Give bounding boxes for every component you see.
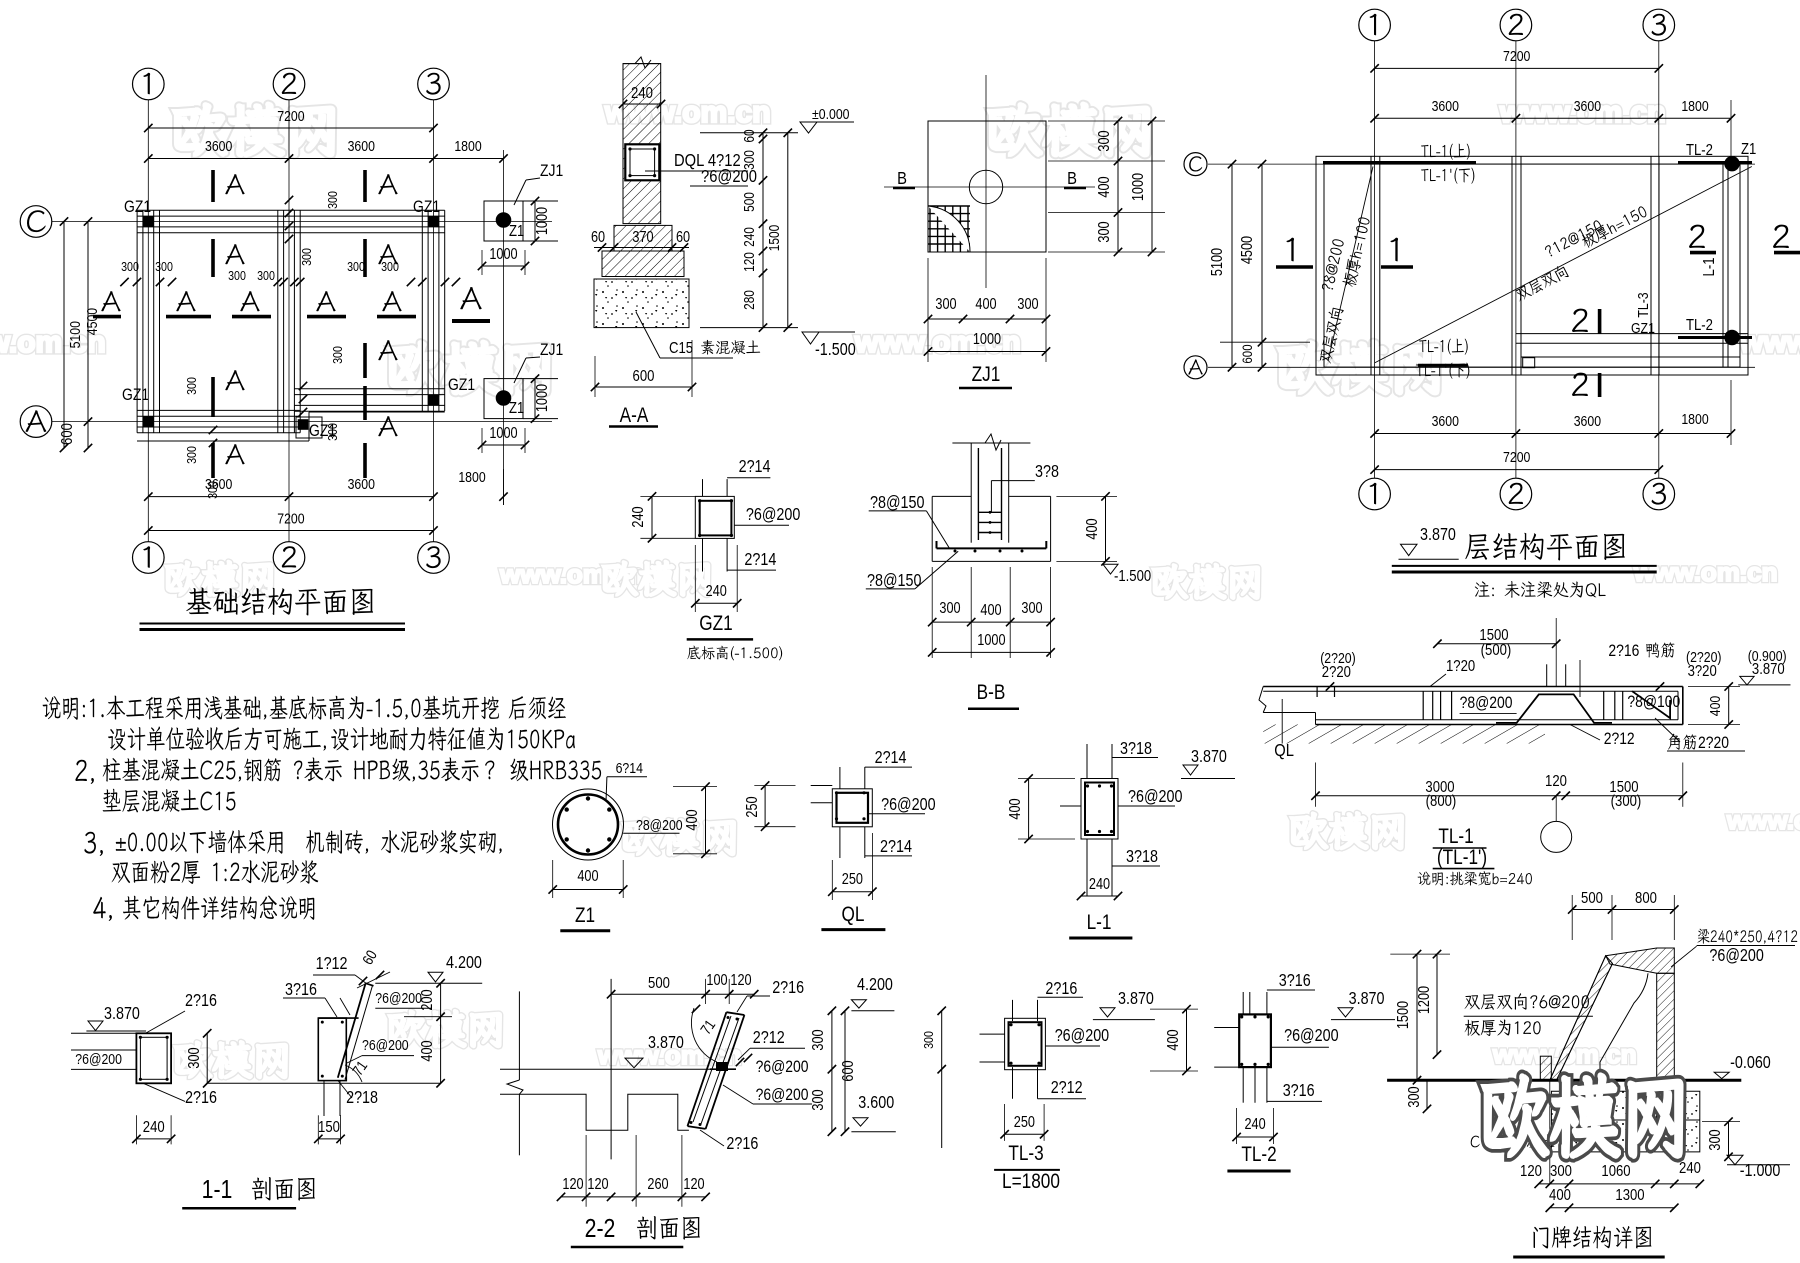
1-1 angle 71	[349, 1058, 370, 1079]
A-A label DQL 4?12 / ?6@200	[674, 151, 741, 171]
floor plan grid bubbles bottom	[1359, 478, 1391, 510]
2-2 bottom dims	[561, 1196, 706, 1198]
A-A title	[620, 405, 649, 428]
TL-1 grid circle	[1541, 821, 1572, 852]
floor plan beam grid2	[1511, 156, 1513, 375]
svg-text:2?20: 2?20	[1698, 734, 1729, 753]
svg-text:5100: 5100	[67, 321, 83, 349]
svg-text:300: 300	[121, 259, 139, 274]
dimension 7200 top	[148, 127, 433, 129]
TL-1 top hooks	[1316, 687, 1318, 698]
svg-text:2?18: 2?18	[346, 1089, 378, 1108]
B-B label ?8@150 top	[870, 494, 925, 513]
floor plan beam grid3	[1650, 156, 1652, 375]
grid lines vertical	[147, 100, 149, 542]
TL-1 label 2?20 left	[1320, 650, 1356, 666]
svg-text:300: 300	[1021, 600, 1042, 617]
svg-text:2?12: 2?12	[753, 1029, 785, 1048]
svg-text:GZ1: GZ1	[1631, 320, 1655, 336]
L-1 level 3.870	[1191, 748, 1227, 767]
ZJ1 center lines	[985, 75, 987, 288]
ZJ1 top right dims	[534, 201, 536, 241]
svg-text:300: 300	[810, 1089, 827, 1110]
svg-text:www.om.cn: www.om.cn	[1726, 805, 1800, 835]
GZ1 labels on plan	[124, 198, 151, 217]
svg-text:7200: 7200	[1503, 48, 1531, 64]
door left dims 1500 1200 300	[1416, 954, 1418, 1080]
A-A dim 600	[595, 386, 692, 388]
svg-text:3600: 3600	[348, 476, 376, 492]
section cut dashes vertical x=365 and letters	[363, 170, 367, 202]
svg-text:300: 300	[257, 268, 275, 283]
TL-3 title	[1008, 1143, 1043, 1166]
2-2 label 2?16 top	[772, 979, 804, 998]
svg-text:(500): (500)	[1481, 642, 1512, 659]
svg-text:Z1: Z1	[1741, 141, 1756, 158]
svg-text:4.200: 4.200	[446, 954, 482, 973]
watermark row2	[0, 326, 106, 359]
svg-text:2?14: 2?14	[744, 551, 776, 570]
foundation strip wall right (grid 3)	[421, 210, 423, 411]
B-B stirrups	[978, 511, 1001, 513]
A-A concrete footing C15	[594, 279, 689, 328]
2-2 level 3.600	[858, 1094, 894, 1113]
svg-text:Z1: Z1	[509, 223, 524, 240]
svg-text:-0.060: -0.060	[1730, 1054, 1771, 1073]
svg-text:TL-3: TL-3	[1008, 1143, 1043, 1166]
ZJ1 title	[972, 364, 1001, 387]
plan 300 dim labels and ticks	[121, 259, 139, 274]
svg-text:(300): (300)	[1611, 793, 1642, 810]
ZJ1 plan square	[928, 121, 1046, 252]
A-A dims 60 370 60	[591, 229, 605, 246]
svg-text:1800: 1800	[454, 138, 482, 154]
B-B bottom rebar	[937, 547, 1047, 549]
svg-text:240: 240	[1679, 1160, 1701, 1177]
svg-text:?6@200: ?6@200	[362, 1037, 409, 1053]
door pylon right column hatched	[1657, 973, 1675, 1121]
B-B bottom dims	[932, 621, 1050, 623]
watermark row4	[623, 819, 734, 855]
Z1 title	[575, 905, 595, 928]
tick marks on top wall near grid2	[285, 196, 293, 204]
door slab stub	[1540, 1056, 1551, 1080]
door bottom dims row2	[1550, 1207, 1675, 1209]
TL-3 wall verticals	[1012, 1000, 1014, 1021]
TL-2 label 3?16 top	[1279, 972, 1311, 991]
TL-1 label 3?20 right	[1686, 649, 1722, 665]
svg-text:2?12: 2?12	[1604, 730, 1635, 749]
svg-text:L-1: L-1	[1701, 258, 1718, 277]
grid bubbles bottom (foundation plan)	[133, 542, 165, 574]
ZJ1 right dims 300 400 300 1000	[1117, 121, 1119, 252]
svg-text:1-1: 1-1	[202, 1175, 233, 1205]
door pylon top cap	[1606, 948, 1675, 973]
floor plan grid verticals	[1374, 41, 1376, 478]
svg-text:L-1: L-1	[1087, 912, 1112, 935]
svg-text:3600: 3600	[1574, 98, 1602, 114]
svg-text:60: 60	[591, 229, 605, 246]
watermark row5	[389, 1011, 500, 1047]
svg-text:(800): (800)	[1426, 793, 1457, 810]
svg-text:400: 400	[1165, 1029, 1182, 1050]
TL-2 title	[1241, 1144, 1276, 1167]
svg-text:7200: 7200	[277, 510, 305, 526]
svg-text:?6@200: ?6@200	[881, 796, 936, 815]
svg-text:240: 240	[706, 583, 727, 600]
2-2 intersection detail	[716, 1062, 728, 1071]
ZJ1 bottom right dims	[534, 379, 536, 419]
dimension 5100 / 4500 / 600 left	[63, 222, 65, 449]
TL-1 hatch ground	[1263, 725, 1545, 744]
svg-text:3600: 3600	[1432, 98, 1460, 114]
corner column GZ1 squares (black)	[143, 216, 154, 227]
TL-2 label ?6@200	[1284, 1027, 1339, 1046]
svg-text:3.870: 3.870	[1191, 748, 1227, 767]
svg-text:300: 300	[347, 259, 365, 274]
2-2 label 2?16 bottom	[726, 1135, 758, 1154]
svg-text:Z1: Z1	[509, 400, 524, 417]
2-2 level 3.870	[648, 1034, 684, 1053]
svg-text:400: 400	[577, 868, 598, 885]
floor plan Z1 dots	[1724, 156, 1739, 171]
notes line 5	[84, 832, 102, 856]
B-B title	[977, 682, 1006, 705]
svg-text:A-A: A-A	[620, 405, 649, 428]
svg-text:1000: 1000	[489, 246, 517, 263]
Z1 dim 400 bottom	[553, 889, 624, 891]
svg-text:GZ1: GZ1	[699, 613, 732, 636]
foundation strip wall left (grid 1)	[136, 210, 138, 432]
A-A ring beam DQL	[625, 144, 659, 180]
watermark row3	[166, 561, 272, 595]
2-2 sloped member	[688, 1012, 727, 1126]
TL-1 stirrup group right	[1603, 691, 1605, 720]
floor plan grid bubbles top	[1359, 9, 1391, 41]
svg-text:60: 60	[741, 129, 757, 142]
svg-text:2?16: 2?16	[726, 1135, 758, 1154]
1-1 dim 60 slope	[359, 947, 380, 967]
TL-3 dim 250	[1005, 1133, 1045, 1135]
GZ1 label 2?14 top	[739, 458, 771, 477]
svg-text:3600: 3600	[1432, 413, 1460, 429]
svg-text:L=1800: L=1800	[1002, 1171, 1060, 1194]
TL-1 beam outline	[1263, 686, 1683, 688]
svg-text:1200: 1200	[1416, 986, 1433, 1014]
floor plan grid A bubble	[1184, 356, 1207, 379]
svg-text:300: 300	[810, 1029, 827, 1050]
svg-text:-1.500: -1.500	[1114, 568, 1151, 585]
svg-text:3?20: 3?20	[1688, 663, 1717, 680]
svg-text:3600: 3600	[348, 138, 376, 154]
Z1 label ?8@200	[636, 817, 683, 833]
L-1 label 3?18 top	[1120, 740, 1152, 759]
svg-text:3600: 3600	[1574, 413, 1602, 429]
2-2 left wall verticals	[518, 991, 520, 1080]
L-1 thick rect	[1081, 779, 1118, 840]
TL-2 wall verticals	[1242, 992, 1244, 1014]
dimension 3600 3600 bottom	[148, 496, 433, 498]
2-2 label ?6@200 upper	[756, 1058, 809, 1077]
svg-text:240: 240	[143, 1119, 165, 1136]
notes line 7	[93, 897, 112, 921]
TL-1 label 2?16 duck	[1608, 642, 1639, 661]
door ground line	[1387, 1079, 1741, 1082]
ZJ1 rebar mesh quarter	[928, 205, 970, 207]
TL-1 label 1?20	[1446, 658, 1475, 675]
1-1 label 2?18	[346, 1089, 378, 1108]
svg-text:±0.000: ±0.000	[812, 106, 850, 122]
svg-text:1?20: 1?20	[1446, 658, 1475, 675]
svg-text:100: 100	[706, 972, 727, 989]
1-1 beam rect	[136, 1033, 171, 1083]
B section marks	[897, 169, 907, 189]
1-1 bottom extension	[323, 1081, 325, 1116]
svg-text:150: 150	[318, 1119, 340, 1136]
floor plan TL labels	[1421, 144, 1470, 160]
1-1 long bottom line	[207, 1082, 440, 1084]
svg-text:1000: 1000	[973, 331, 1001, 348]
door label double layer	[1464, 993, 1588, 1009]
svg-text:500: 500	[741, 192, 757, 212]
svg-text:2?16: 2?16	[772, 979, 804, 998]
svg-text:TL-3: TL-3	[1635, 292, 1651, 318]
svg-text:600: 600	[840, 1060, 857, 1081]
svg-text:240: 240	[741, 227, 757, 247]
L-1 label 3?18 bottom	[1126, 848, 1158, 867]
Z1 label 6?14	[616, 760, 644, 776]
svg-text:5100: 5100	[1209, 248, 1226, 276]
floor plan TL-1 thick beams	[1323, 161, 1476, 164]
TL-2 level 3.870	[1349, 990, 1385, 1009]
svg-text:TL-2: TL-2	[1241, 1144, 1276, 1167]
svg-text:1500: 1500	[1395, 1001, 1412, 1029]
svg-text:C15: C15	[669, 340, 693, 357]
floor plan title with 3.870	[1420, 526, 1456, 545]
svg-text:120: 120	[1545, 773, 1567, 790]
svg-text:300: 300	[741, 150, 757, 170]
svg-text:240: 240	[630, 506, 647, 527]
floor plan section marks 2	[1572, 309, 1588, 332]
2-2 ground steps	[500, 1094, 689, 1130]
Z1 outer circle	[553, 789, 624, 860]
svg-text:1800: 1800	[458, 469, 486, 485]
L-1 wall verticals	[1086, 744, 1088, 779]
svg-text:QL: QL	[1274, 741, 1294, 761]
A-A level -1.500	[802, 332, 819, 344]
svg-text:120: 120	[562, 1176, 583, 1193]
svg-text:?6@200: ?6@200	[75, 1051, 122, 1067]
svg-text:300: 300	[939, 600, 960, 617]
TL-1 left break	[1259, 687, 1266, 713]
1-1 label ?6@200 left	[75, 1051, 122, 1067]
svg-text:2?16: 2?16	[185, 992, 217, 1011]
svg-text:1000: 1000	[489, 425, 517, 442]
QL outer rect	[832, 789, 872, 827]
door level -1.000	[1727, 1155, 1743, 1165]
wall line right of 2-2	[941, 1011, 943, 1148]
svg-text:300: 300	[325, 191, 340, 209]
svg-text:600: 600	[59, 423, 76, 445]
1-1 parapet member	[318, 1018, 346, 1081]
svg-text:370: 370	[632, 229, 653, 246]
foundation strip wall middle (grid 2)	[277, 210, 279, 432]
svg-text:-1.500: -1.500	[815, 341, 856, 360]
svg-text:1000: 1000	[977, 632, 1005, 649]
TL-3 left slab lines	[980, 1033, 1005, 1035]
B-B level -1.500	[1103, 564, 1118, 574]
svg-text:?8@100: ?8@100	[1627, 693, 1680, 712]
foundation strip wall bottom right	[294, 388, 444, 390]
grid line A	[20, 406, 52, 438]
B-B column break top	[952, 442, 1030, 444]
svg-text:3.870: 3.870	[104, 1005, 140, 1024]
floor plan diagonal annotation left	[1328, 167, 1373, 362]
svg-text:400: 400	[1007, 798, 1024, 819]
svg-text:400: 400	[975, 296, 996, 313]
Z1 rebar dots	[607, 837, 611, 841]
svg-text:GZ1: GZ1	[122, 386, 149, 405]
door label C15	[1471, 1134, 1555, 1149]
svg-text:QL: QL	[842, 904, 865, 927]
svg-text:240: 240	[1244, 1116, 1265, 1133]
svg-text:400: 400	[980, 602, 1001, 619]
A-A right side section mark	[460, 287, 481, 309]
svg-text:120: 120	[587, 1176, 608, 1193]
svg-text:240: 240	[631, 85, 653, 102]
TL-1 dim 400 right	[1728, 687, 1730, 725]
1-1 dims 200 400 right	[440, 983, 442, 1083]
QL dim 250 bottom	[832, 891, 872, 893]
svg-text:300: 300	[325, 423, 340, 441]
svg-text:1500: 1500	[766, 225, 782, 251]
L-1 title	[1087, 912, 1112, 935]
floor plan outer boundary	[1316, 156, 1748, 375]
GZ1 label 2?14 bottom	[744, 551, 776, 570]
TL-2 dim 240	[1237, 1136, 1274, 1138]
TL-1 label ?8@100	[1627, 693, 1680, 712]
door title	[1533, 1226, 1651, 1249]
svg-text:1800: 1800	[1681, 98, 1709, 114]
2-2 title	[585, 1214, 616, 1244]
svg-text:300: 300	[1096, 221, 1113, 242]
svg-text:400: 400	[1707, 695, 1723, 716]
TL-1 bottom dims	[1316, 795, 1683, 797]
svg-text:400: 400	[419, 1040, 436, 1061]
svg-text:120: 120	[683, 1176, 704, 1193]
svg-text:300: 300	[155, 259, 173, 274]
QL dim 250 left	[764, 786, 766, 827]
tick marks mid wall lower	[299, 382, 307, 390]
svg-text:300: 300	[935, 296, 956, 313]
svg-text:1000: 1000	[534, 207, 551, 235]
svg-text:3?16: 3?16	[1279, 972, 1311, 991]
svg-text:4500: 4500	[84, 308, 100, 336]
svg-text:300: 300	[1707, 1129, 1724, 1150]
svg-text:2?12: 2?12	[1051, 1079, 1083, 1098]
QL rebar leader lines	[839, 767, 841, 789]
svg-text:3?16: 3?16	[1283, 1082, 1315, 1101]
svg-text:ZJ1: ZJ1	[540, 341, 563, 360]
B-B label 3?8	[1035, 463, 1059, 482]
A-A footing step 2	[602, 251, 684, 277]
grid bubbles top (foundation plan)	[133, 68, 165, 100]
svg-text:?6@200: ?6@200	[1128, 788, 1183, 807]
svg-text:?8@150: ?8@150	[870, 494, 925, 513]
notes line 6	[112, 860, 319, 884]
svg-text:280: 280	[741, 290, 757, 310]
A-A hatched wall	[623, 64, 661, 224]
TL-1 dim 1500 top	[1437, 643, 1556, 645]
section cut dashes horizontal row	[93, 315, 121, 319]
1-1 label 3?16	[285, 981, 317, 1000]
GZ1 dim 240 bottom	[695, 602, 737, 604]
TL-1 support lines center	[1546, 664, 1548, 686]
svg-text:1000: 1000	[534, 384, 551, 412]
svg-text:300: 300	[299, 248, 314, 266]
svg-text:1?12: 1?12	[316, 955, 348, 974]
svg-text:500: 500	[1581, 890, 1603, 907]
TL-1 label ?8@200	[1460, 694, 1513, 713]
notes line 4	[103, 789, 236, 813]
GZ1 wall lines	[702, 479, 704, 496]
svg-text:400: 400	[1096, 176, 1113, 197]
GZ1 label ?6@200	[746, 506, 801, 525]
svg-text:1060: 1060	[1601, 1163, 1630, 1180]
svg-text:?8@200: ?8@200	[636, 817, 683, 833]
svg-text:?8@200: ?8@200	[1460, 694, 1513, 713]
svg-text:B-B: B-B	[977, 682, 1006, 705]
svg-text:260: 260	[647, 1176, 668, 1193]
floor plan bottom dims	[1375, 433, 1731, 435]
2-2 right dims 300 300 600	[831, 1011, 833, 1132]
svg-text:300: 300	[921, 1031, 936, 1049]
floor plan left dims	[1231, 164, 1233, 367]
door level -0.060	[1730, 1054, 1771, 1073]
svg-text:1800: 1800	[1681, 411, 1709, 427]
svg-text:300: 300	[1550, 1163, 1572, 1180]
TL-1 title	[1438, 826, 1473, 849]
Z1 inner circle thick	[558, 795, 618, 855]
TL-3 label 2?16	[1045, 980, 1077, 999]
svg-text:300: 300	[1096, 130, 1113, 151]
QL label 2?14 top	[875, 749, 907, 768]
svg-text:4.200: 4.200	[857, 976, 893, 995]
1-1 level 4.200	[446, 954, 482, 973]
notes line 2	[108, 726, 326, 750]
svg-text:ZJ1: ZJ1	[972, 364, 1001, 387]
door beam label	[1698, 929, 1798, 944]
svg-text:300: 300	[205, 481, 220, 499]
B-B right dim 400	[1105, 496, 1107, 561]
svg-text:3?18: 3?18	[1120, 740, 1152, 759]
svg-text:3.870: 3.870	[648, 1034, 684, 1053]
svg-text:250: 250	[744, 796, 761, 817]
foundation outline step bottom right	[137, 440, 309, 442]
watermark row1	[175, 104, 333, 155]
svg-text:3600: 3600	[205, 138, 233, 154]
QL label ?6@200	[881, 796, 936, 815]
svg-text:TL-2: TL-2	[1686, 317, 1713, 334]
svg-text:300: 300	[184, 377, 199, 395]
svg-text:?6@200: ?6@200	[756, 1058, 809, 1077]
svg-text:2?14: 2?14	[875, 749, 907, 768]
svg-text:?6@200: ?6@200	[1709, 947, 1764, 966]
QL title	[842, 904, 865, 927]
door bottom dims row1	[1539, 1183, 1700, 1185]
GZ1 title	[699, 613, 732, 636]
2-2 level 4.200	[857, 976, 893, 995]
